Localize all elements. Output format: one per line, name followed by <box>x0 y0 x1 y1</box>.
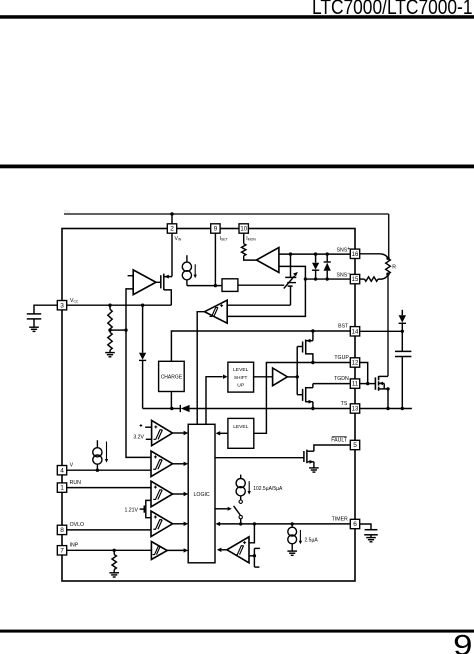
arrow I4 direction <box>299 530 302 544</box>
label IMON <box>246 236 256 242</box>
pin 2 <box>167 224 176 233</box>
block LEVEL SHIFT UP <box>228 362 254 392</box>
resistor R5 (INP pulldown) <box>112 550 116 572</box>
wire VCC external <box>34 305 57 313</box>
capacitor C2 (BST boot cap) <box>395 331 411 408</box>
svg-text:12: 12 <box>352 361 359 367</box>
resistor R3 (divider upper) <box>108 305 112 330</box>
switch S1 (timer current) <box>234 500 243 524</box>
label 2.5uA <box>305 537 319 543</box>
label BST <box>338 323 349 329</box>
wire rail to ext FET drain <box>387 274 389 376</box>
svg-text:RUN: RUN <box>70 480 81 486</box>
label INP <box>70 543 79 549</box>
svg-text:V: V <box>70 463 74 469</box>
wire TGUP external jog <box>360 363 368 384</box>
svg-text:10: 10 <box>240 227 247 233</box>
label C3 plus <box>154 486 157 489</box>
svg-text:FAULT: FAULT <box>331 437 348 443</box>
resistor R (sense) <box>386 258 391 274</box>
wire A1 feedback input <box>126 289 133 330</box>
page number 9 <box>453 629 472 654</box>
block LEVEL SHIFT DOWN <box>228 418 254 448</box>
comparator C6 (current fault comparator) <box>205 300 228 323</box>
label SNS+ <box>336 246 350 254</box>
op-amp A2 (current sense amp) <box>256 248 279 273</box>
wire C7 plus input <box>249 524 254 543</box>
glyph C1 hysteresis <box>153 430 162 440</box>
label VCC <box>70 298 79 304</box>
svg-text:INP: INP <box>70 543 79 549</box>
block LOGIC <box>188 424 215 563</box>
label RUN <box>70 480 81 486</box>
op-amp U2 (gate driver buffer) <box>273 368 288 386</box>
IC boundary outline <box>62 229 355 582</box>
svg-text:3: 3 <box>60 302 64 309</box>
diode D2 (SNS clamp up) <box>324 254 331 279</box>
node 2.5uA timer junction <box>291 522 294 525</box>
label 1.21V <box>124 508 138 514</box>
svg-text:5: 5 <box>353 442 357 449</box>
wire VIN rail right drop <box>388 214 390 258</box>
label VIN <box>175 236 182 242</box>
wire VIN top rail <box>64 213 389 215</box>
node switch timer junction <box>239 522 242 525</box>
footer rule <box>0 630 474 633</box>
wire LOGIC to level shift up <box>206 375 228 425</box>
op-amp A1 (VCC regulator amp) <box>133 270 156 295</box>
label 102.5uA/5uA <box>253 486 283 492</box>
wire divider bus down to C2 input <box>126 330 151 457</box>
glyph C3 hysteresis <box>153 490 162 500</box>
ground (VCC cap) <box>29 327 39 331</box>
label FAULT <box>331 437 348 444</box>
svg-text:CHARGE: CHARGE <box>161 374 183 380</box>
current source I3 (102.5uA/5uA) <box>236 475 245 500</box>
wire totem gate bus <box>297 347 302 395</box>
wire LOGIC to switch control <box>215 507 232 511</box>
node BST internal junction <box>311 329 314 332</box>
wire B1 output to M4 control <box>238 284 284 286</box>
header title LTC7000/LTC7000-1 <box>312 0 473 19</box>
comparator C3 (RUN) <box>151 481 173 507</box>
wire level shift up to driver <box>254 376 273 378</box>
node D2 cathode <box>326 252 329 255</box>
arrow I2 direction <box>105 442 108 463</box>
svg-text:2.5µA: 2.5µA <box>305 537 319 543</box>
svg-text:LOGIC: LOGIC <box>194 492 210 498</box>
svg-text:11: 11 <box>352 382 359 388</box>
pin 4 <box>57 466 66 475</box>
comparator C4 (OVLO) <box>151 511 173 537</box>
svg-text:102.5µA/5µA: 102.5µA/5µA <box>253 486 283 492</box>
pin 3 <box>57 301 66 310</box>
node M4 drain on SNS+ rail <box>289 252 292 255</box>
svg-text:OVLO: OVLO <box>70 522 84 528</box>
svg-text:9: 9 <box>214 226 218 233</box>
wire FAULT internal <box>314 445 350 451</box>
svg-text:2: 2 <box>170 226 174 233</box>
wire I1 to ISET node <box>187 285 222 287</box>
label C6 plus <box>220 304 223 307</box>
wire CHARGE bottom <box>170 392 172 409</box>
wire pin10 stub <box>243 233 245 244</box>
wire OVLO net <box>67 529 151 531</box>
wire V pin net <box>67 469 151 471</box>
label 3.2V <box>133 435 144 441</box>
wire A2 minus input to SNS- node <box>279 266 306 279</box>
svg-text:13: 13 <box>352 407 359 413</box>
diode D1 (SNS clamp down) <box>312 254 319 279</box>
label LEVEL SHIFT UP <box>233 367 249 388</box>
svg-text:R: R <box>392 264 396 270</box>
reference V2 1.21V tick <box>140 506 145 513</box>
node D1 anode <box>314 252 317 255</box>
svg-text:SHIFT: SHIFT <box>234 375 247 380</box>
block B1 (current set) <box>222 279 238 292</box>
glyph C7 hysteresis <box>235 546 243 555</box>
wire LOGIC to M3 gate <box>215 457 304 459</box>
node divider bus junction <box>124 328 127 331</box>
svg-text:TGDN: TGDN <box>334 376 349 382</box>
wire C4 output <box>173 522 189 526</box>
wire C1 top input stub <box>145 426 151 428</box>
node Rsense bottom <box>386 272 389 275</box>
wire divider tap to comparator bus <box>110 329 126 331</box>
pin 1 <box>57 483 66 492</box>
svg-text:16: 16 <box>352 252 359 258</box>
label R <box>392 264 396 270</box>
node VCC charge branch junction <box>141 304 144 307</box>
svg-text:9: 9 <box>453 629 472 654</box>
glyph C5 hysteresis <box>153 547 161 555</box>
wire TGDN internal <box>313 383 350 385</box>
wire TGDN external to gate <box>360 383 376 385</box>
svg-text:1.21V: 1.21V <box>124 508 138 514</box>
pin 14 <box>350 327 359 336</box>
pin 16 <box>350 249 359 258</box>
header rule (thick) <box>0 15 474 19</box>
node driver gate junction <box>296 375 299 378</box>
comparator C7 (timer comparator) <box>227 537 249 563</box>
pin 10 <box>239 224 248 233</box>
current source I1 (charge pump bias) <box>182 255 191 285</box>
label OVLO <box>70 522 84 528</box>
node D1 cathode <box>314 277 317 280</box>
glyph C2 hysteresis <box>153 460 162 470</box>
pin 5 <box>350 440 359 449</box>
transistor M3 (FAULT open drain) <box>304 450 314 468</box>
wire VCC to D3 <box>142 305 144 353</box>
svg-text:6: 6 <box>353 521 357 528</box>
pin 7 <box>57 546 66 555</box>
comparator C5 (INP buffer) <box>151 542 167 560</box>
wire SNS+ external <box>360 254 388 259</box>
node SNS- amp junction <box>304 277 307 280</box>
svg-text:LEVEL: LEVEL <box>233 424 249 430</box>
label V <box>70 463 74 469</box>
label C1 plus outer <box>140 424 143 427</box>
ground (FAULT FET) <box>309 468 319 472</box>
transistor M4 (servo variable FET) <box>284 254 298 305</box>
node timer comp junction <box>253 522 256 525</box>
diode D4 (charge node to TS) <box>172 405 190 412</box>
capacitor C1 (VCC bypass) <box>27 314 41 327</box>
label C1 plus inner <box>154 425 157 428</box>
svg-text:15: 15 <box>352 277 359 283</box>
node gate tie junction <box>366 382 369 385</box>
wire A1 minus input stub <box>128 275 134 277</box>
label LEVEL (down) <box>233 424 249 430</box>
arrow I1 direction <box>194 264 197 278</box>
diode D5 (BST bootstrap) <box>399 310 406 332</box>
reference V3 (timer thresholds) <box>254 548 260 567</box>
wire RUN net <box>67 487 151 489</box>
wire C1 output <box>173 431 189 435</box>
label CHARGE <box>161 374 183 380</box>
pin 11 <box>350 379 359 388</box>
svg-text:8: 8 <box>60 527 64 534</box>
pin 12 <box>350 358 359 367</box>
label C4 plus <box>154 516 157 519</box>
label C7 plus <box>243 541 246 544</box>
diode D3 (VCC to charge node) <box>139 353 146 409</box>
current source I2 (V pin bias) <box>93 440 102 470</box>
pin 6 <box>350 519 359 528</box>
wire Q2 source to TS <box>387 389 389 409</box>
svg-text:TGUP: TGUP <box>334 355 349 361</box>
svg-text:14: 14 <box>352 329 359 335</box>
resistor R4 (divider lower) <box>108 330 112 352</box>
wire A2 plus input to SNS+ rail <box>279 253 350 255</box>
label LOGIC <box>194 492 210 498</box>
transistor M1 (pull-up to TGUP) <box>303 339 313 363</box>
transistor M2 (pull-down TGDN) <box>303 384 313 409</box>
wire M1 drain to BST <box>312 331 314 341</box>
wire VIN internal drop to pass FET drain <box>171 233 173 276</box>
node charge pump bottom junction <box>170 407 173 410</box>
label TGUP <box>334 355 349 361</box>
capacitor C3 (timer) <box>364 530 378 538</box>
wire TS internal <box>190 408 351 410</box>
wire C7 minus input <box>249 555 254 557</box>
label SNS- <box>336 271 350 279</box>
svg-text:BST: BST <box>338 323 349 329</box>
node VCC divider junction <box>108 304 111 307</box>
svg-text:1: 1 <box>60 485 64 492</box>
node ISET junction <box>214 284 217 287</box>
wire INP net <box>67 549 152 551</box>
label TIMER <box>332 517 348 523</box>
wire 1.21V bracket <box>146 500 151 517</box>
pin 9 <box>211 224 220 233</box>
node Q2 source junction <box>386 387 389 390</box>
label ISET <box>220 236 228 242</box>
wire CHARGE top to BST <box>171 331 350 361</box>
block CHARGE (charge pump) <box>159 361 185 391</box>
wire pin9 drop <box>214 233 216 285</box>
svg-text:7: 7 <box>60 547 64 554</box>
ground (2.5uA source) <box>287 551 297 555</box>
current source I4 (2.5uA) <box>288 524 297 551</box>
node INP divider junction <box>113 549 116 552</box>
transistor Q2 (external power NMOS) <box>375 376 388 391</box>
node VIN label (faint) <box>64 208 71 213</box>
wire D3 to charge node <box>143 408 172 410</box>
glyph C4 hysteresis <box>153 520 162 530</box>
comparator C2 (V sense) <box>151 451 173 477</box>
wire C6 minus input from SNS- <box>227 279 305 316</box>
resistor R2 (IMON gain) <box>242 244 246 256</box>
arrow I3 direction <box>248 481 251 494</box>
wire SNS- internal <box>305 278 350 280</box>
wire BST external <box>360 330 403 332</box>
wire C6 output to logic <box>197 312 204 425</box>
wire A1 output to Q1 gate <box>156 281 161 283</box>
wire R2 to A2 output <box>244 256 257 260</box>
wire VCC internal <box>67 304 172 306</box>
ground (timer cap) <box>366 538 376 542</box>
section rule (thick) <box>0 165 474 169</box>
wire TIMER external <box>360 524 371 530</box>
wire TIMER internal <box>216 522 351 526</box>
node D2 anode <box>326 277 329 280</box>
node V bias junction <box>96 469 99 472</box>
node junction on VIN rail <box>170 212 173 215</box>
ground (divider) <box>105 353 115 357</box>
node BST ext junction <box>401 330 404 333</box>
glyph C6 hysteresis <box>210 307 218 316</box>
svg-text:TS: TS <box>341 401 348 407</box>
node reference tap <box>253 554 256 557</box>
wire driver output <box>287 376 297 378</box>
wire TGUP internal <box>254 363 350 434</box>
node divider tap <box>108 328 111 331</box>
node TGUP internal junction <box>311 361 314 364</box>
node TS ext junction 1 <box>386 407 389 410</box>
node Rsense top <box>386 257 389 260</box>
svg-text:UP: UP <box>237 382 244 388</box>
wire SNS- external <box>360 275 388 282</box>
wire C7 output to LOGIC <box>217 548 227 552</box>
node BST cap TS junction <box>401 407 404 410</box>
wire pin2 to rail <box>171 214 173 224</box>
wire TS external <box>360 408 412 410</box>
label C2 plus <box>154 455 157 458</box>
transistor Q1 (VCC pass NMOS) <box>161 274 172 306</box>
wire C5 output <box>167 548 188 552</box>
svg-text:4: 4 <box>60 467 64 474</box>
pin 13 <box>350 404 359 413</box>
wire C2 output <box>173 462 189 466</box>
pin 8 <box>57 525 66 534</box>
comparator C1 (3.2V) <box>152 420 173 445</box>
svg-text:TIMER: TIMER <box>332 517 348 523</box>
node TS internal junction <box>311 407 314 410</box>
wire C1 bottom input stub <box>146 438 152 440</box>
wire C6 plus input from M4 <box>227 304 290 306</box>
wire C3 output <box>173 492 189 496</box>
svg-text:LEVEL: LEVEL <box>233 367 249 373</box>
wire level down to LOGIC <box>216 431 228 435</box>
pin 15 <box>350 274 359 283</box>
label TGDN <box>334 376 349 382</box>
ground (INP resistor) <box>109 573 119 577</box>
svg-text:3.2V: 3.2V <box>133 435 144 441</box>
label TS <box>341 401 348 407</box>
